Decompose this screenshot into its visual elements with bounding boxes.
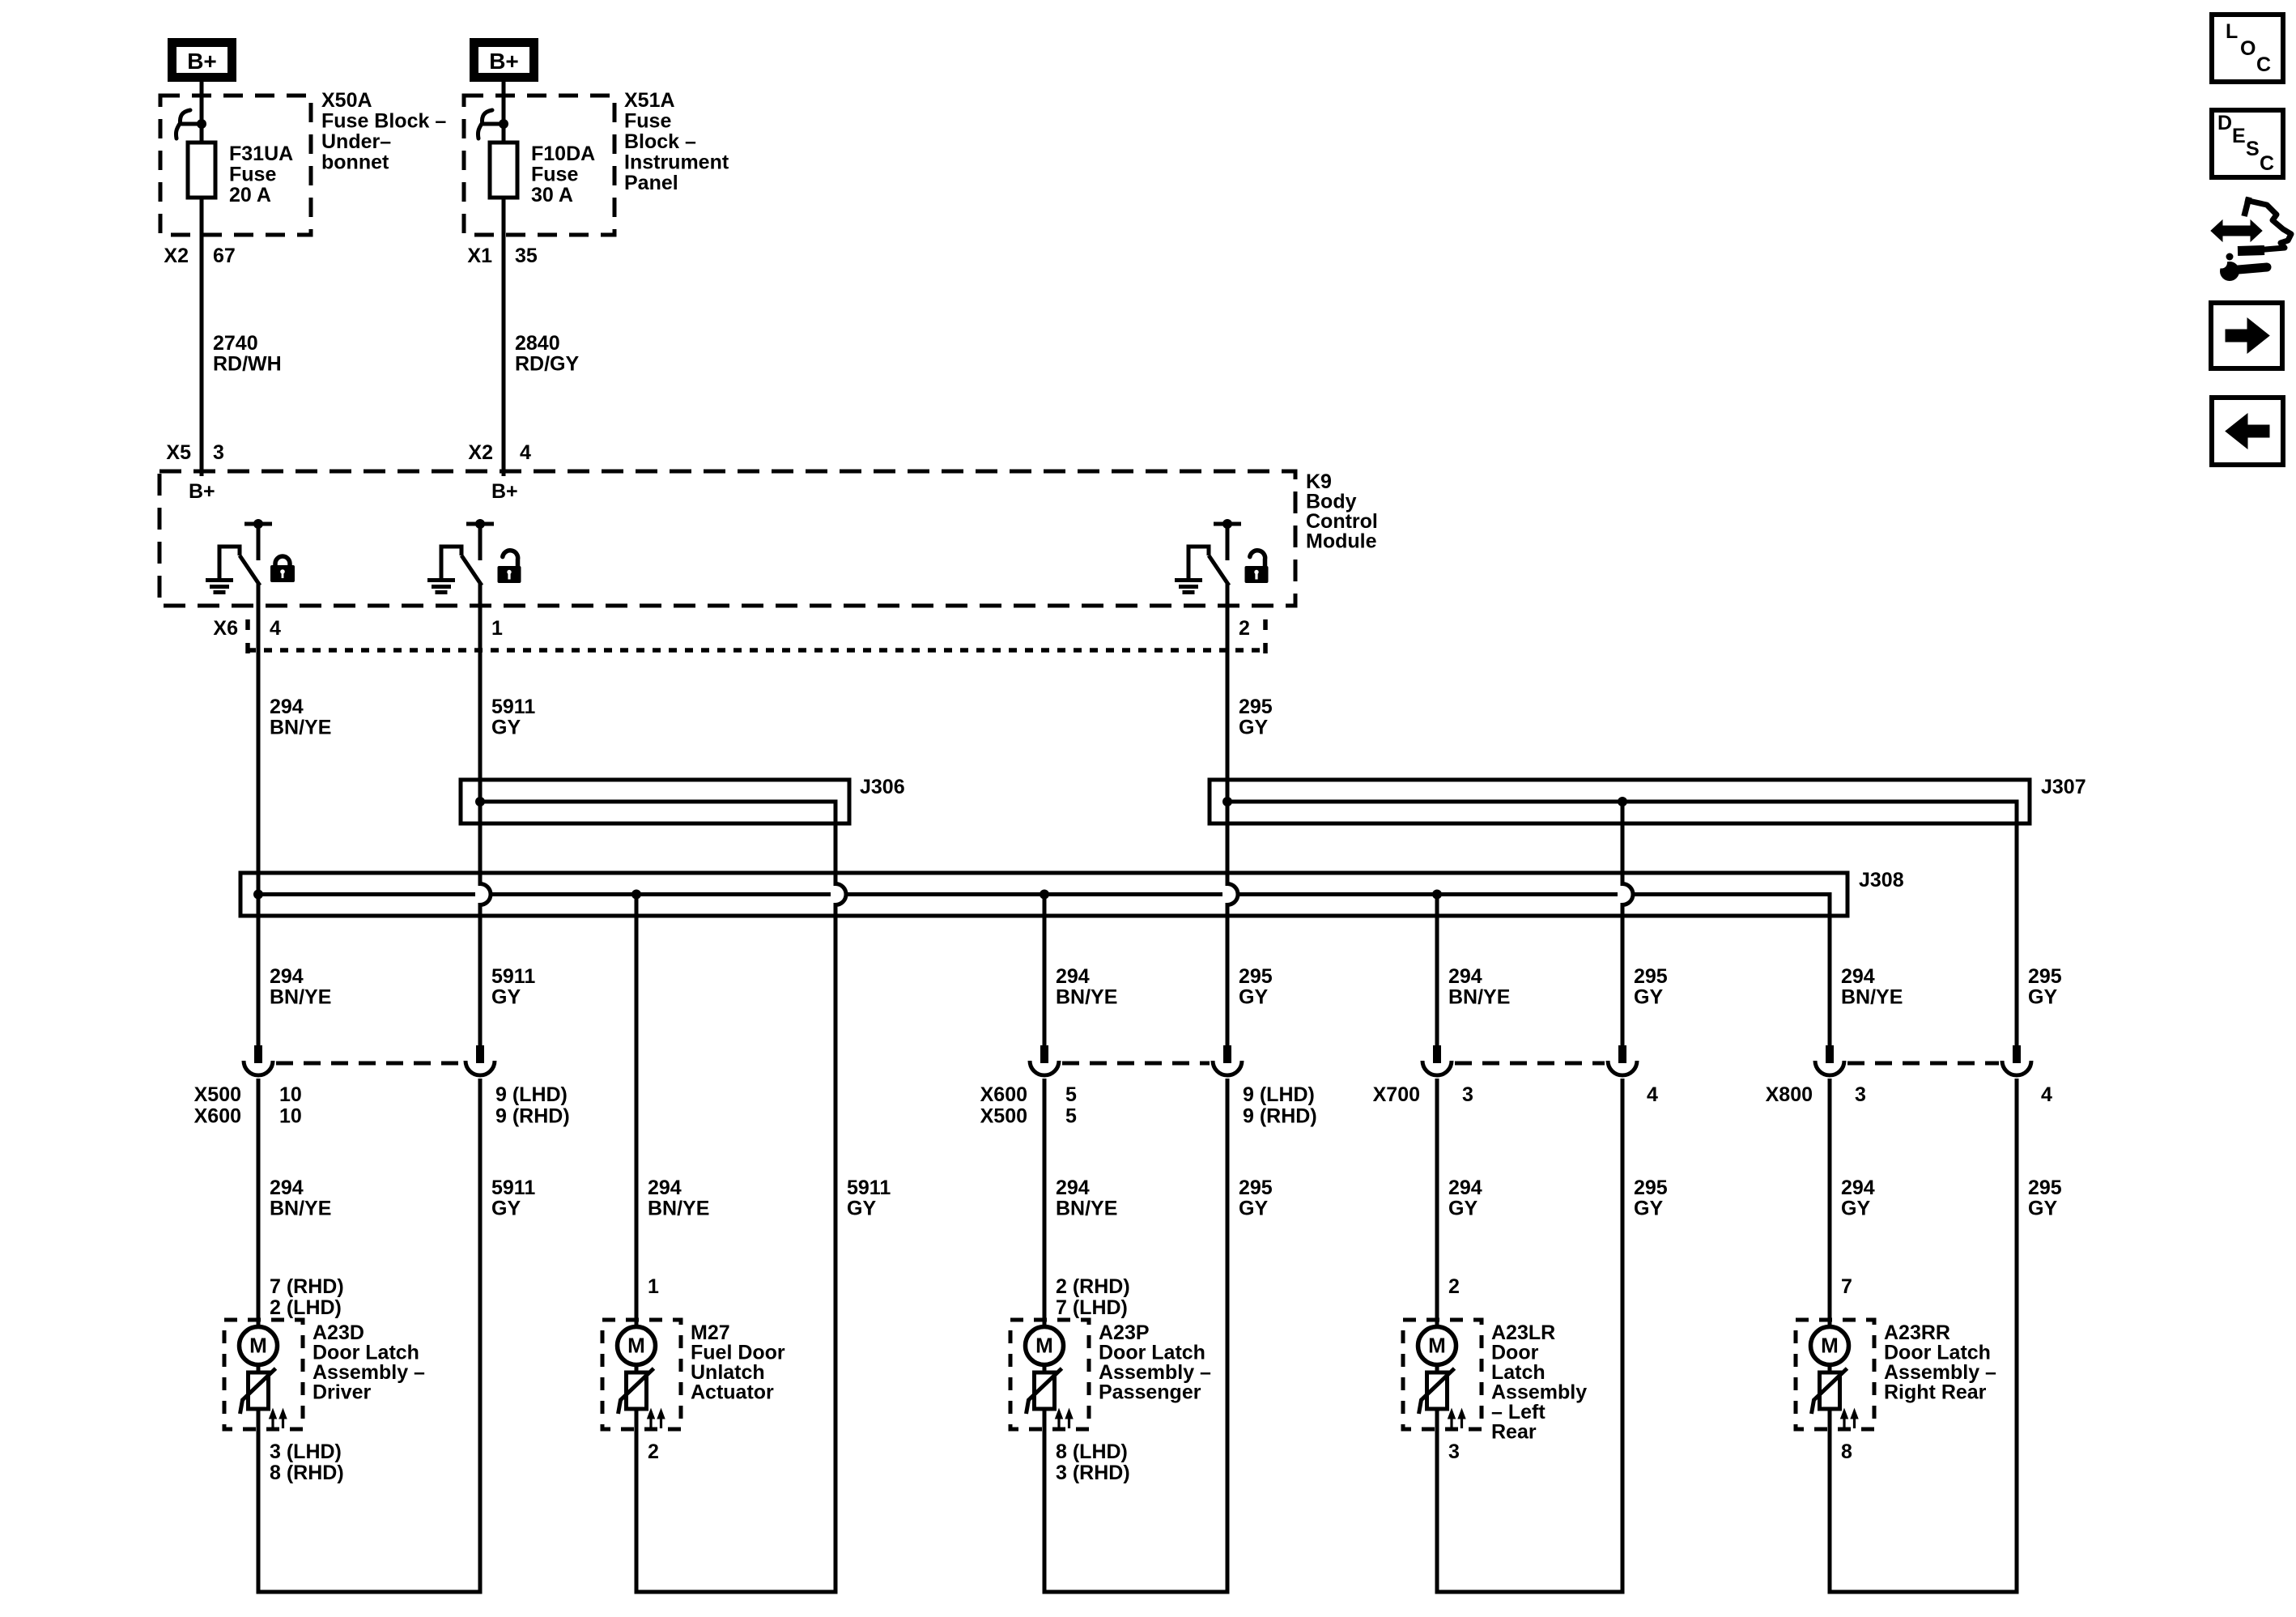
svg-text:294: 294 bbox=[1841, 965, 1875, 988]
ground symbol at unlock (pin X6-1) driver bbox=[427, 581, 455, 593]
svg-text:35: 35 bbox=[515, 245, 538, 267]
svg-text:9 (RHD): 9 (RHD) bbox=[1243, 1105, 1317, 1128]
wire 295 GY left-rear branch from J307 (hop over J308) bbox=[1622, 802, 1633, 1045]
svg-text:X5: X5 bbox=[166, 441, 191, 464]
svg-text:2 (RHD): 2 (RHD) bbox=[1056, 1275, 1130, 1298]
wire through door latch assembly passenger A23P bbox=[1043, 1409, 1047, 1592]
svg-text:2: 2 bbox=[648, 1440, 659, 1463]
svg-text:X50A: X50A bbox=[321, 89, 372, 112]
return wire fuel door actuator to 5911 GY bbox=[635, 1590, 838, 1594]
junction dot J308 at passenger branch bbox=[1040, 890, 1049, 900]
svg-text:3: 3 bbox=[1855, 1083, 1866, 1106]
lock (pin X6-4) driver switch in BCM bbox=[219, 519, 272, 585]
svg-text:X500: X500 bbox=[980, 1105, 1027, 1128]
svg-text:GY: GY bbox=[1841, 1198, 1870, 1220]
svg-text:Driver: Driver bbox=[313, 1381, 372, 1404]
svg-text:J307: J307 bbox=[2041, 776, 2086, 798]
open padlock icon at unlock (pin X6-1) driver bbox=[498, 551, 521, 583]
inline connector X700 left rear door right half bbox=[1608, 1045, 1637, 1075]
inline connector X800 right rear door right half bbox=[2002, 1045, 2031, 1075]
motor M symbol of door latch assembly passenger A23P bbox=[1026, 1327, 1064, 1365]
svg-text:295: 295 bbox=[1239, 965, 1273, 988]
ground symbol at rear unlock (pin X6-2) driver bbox=[1175, 581, 1202, 593]
svg-text:BN/YE: BN/YE bbox=[270, 986, 331, 1009]
svg-text:GY: GY bbox=[1239, 986, 1268, 1009]
return wire driver latch to 5911 GY bbox=[257, 1590, 483, 1594]
wire 294 GY right rear below connector bbox=[1828, 1079, 1832, 1328]
svg-text:X500: X500 bbox=[194, 1083, 241, 1106]
wire 294 BN/YE from X6-4 down to door latch driver (with J308 splice) bbox=[257, 584, 261, 1045]
svg-text:B+: B+ bbox=[187, 49, 217, 74]
svg-text:GY: GY bbox=[1239, 717, 1268, 739]
svg-text:4: 4 bbox=[1647, 1083, 1658, 1106]
svg-text:X51A: X51A bbox=[624, 89, 675, 112]
wire through fuel door unlatch actuator M27 bbox=[635, 1409, 639, 1592]
svg-text:5911: 5911 bbox=[847, 1177, 891, 1199]
return wire right rear latch to 295 GY bbox=[1828, 1590, 2019, 1594]
svg-text:294: 294 bbox=[270, 696, 304, 718]
svg-text:5: 5 bbox=[1065, 1083, 1077, 1106]
X6 connector bracket right bbox=[1263, 619, 1268, 653]
svg-text:295: 295 bbox=[1239, 1177, 1273, 1199]
wire 295 GY left rear return below connector bbox=[1621, 1079, 1625, 1592]
svg-text:M: M bbox=[249, 1334, 267, 1358]
connector link dashed line X700 left rear door bbox=[1455, 1062, 1605, 1066]
return wire left rear latch to 295 GY bbox=[1435, 1590, 1625, 1594]
svg-text:RD/GY: RD/GY bbox=[515, 353, 580, 376]
svg-text:7 (RHD): 7 (RHD) bbox=[270, 1275, 344, 1298]
door latch assembly driver A23D dashed box bbox=[224, 1320, 303, 1429]
svg-text:J306: J306 bbox=[860, 776, 905, 798]
svg-text:X2: X2 bbox=[468, 441, 493, 464]
svg-text:5: 5 bbox=[1065, 1105, 1077, 1128]
J307 internal bus wire bbox=[1227, 802, 2017, 823]
svg-text:X1: X1 bbox=[467, 245, 492, 267]
connector link dashed line X800 right rear door bbox=[1847, 1062, 1999, 1066]
svg-text:bonnet: bonnet bbox=[321, 151, 389, 174]
fuse block tap symbol 1 bbox=[176, 110, 202, 138]
svg-text:BN/YE: BN/YE bbox=[1056, 1198, 1117, 1220]
svg-text:X600: X600 bbox=[194, 1105, 241, 1128]
wire 294 BN/YE fuel door actuator branch from J308 bbox=[635, 895, 639, 1329]
return wire passenger latch to 295 GY bbox=[1043, 1590, 1230, 1594]
svg-text:Fuse: Fuse bbox=[229, 164, 276, 186]
svg-text:2 (LHD): 2 (LHD) bbox=[270, 1296, 342, 1319]
splice pack J308 box bbox=[240, 873, 1847, 916]
svg-text:GY: GY bbox=[1448, 1198, 1478, 1220]
svg-text:Right Rear: Right Rear bbox=[1884, 1381, 1987, 1404]
svg-text:20 A: 20 A bbox=[229, 184, 271, 206]
svg-text:8 (LHD): 8 (LHD) bbox=[1056, 1440, 1128, 1463]
direction arrows of door latch assembly driver A23D bbox=[270, 1409, 287, 1428]
wire 5911 GY driver return below connector bbox=[478, 1079, 483, 1592]
ground symbol at lock (pin X6-4) driver bbox=[206, 581, 233, 593]
svg-text:Fuse: Fuse bbox=[624, 110, 671, 133]
svg-text:BN/YE: BN/YE bbox=[1841, 986, 1903, 1009]
svg-text:5911: 5911 bbox=[491, 696, 535, 718]
svg-text:GY: GY bbox=[1634, 986, 1663, 1009]
svg-text:9 (LHD): 9 (LHD) bbox=[1243, 1083, 1315, 1106]
svg-text:30 A: 30 A bbox=[531, 184, 573, 206]
svg-text:C: C bbox=[2260, 152, 2274, 175]
svg-text:Passenger: Passenger bbox=[1099, 1381, 1201, 1404]
svg-text:3: 3 bbox=[1448, 1440, 1460, 1463]
svg-text:294: 294 bbox=[1056, 965, 1090, 988]
direction arrows of door latch assembly right rear A23RR bbox=[1841, 1409, 1859, 1428]
svg-text:8: 8 bbox=[1841, 1440, 1852, 1463]
svg-text:GY: GY bbox=[847, 1198, 876, 1220]
svg-text:B+: B+ bbox=[189, 480, 215, 503]
svg-text:E: E bbox=[2232, 125, 2246, 147]
svg-text:2: 2 bbox=[1448, 1275, 1460, 1298]
svg-text:4: 4 bbox=[520, 441, 531, 464]
svg-text:X800: X800 bbox=[1766, 1083, 1813, 1106]
svg-text:BN/YE: BN/YE bbox=[1448, 986, 1510, 1009]
svg-text:7 (LHD): 7 (LHD) bbox=[1056, 1296, 1128, 1319]
wire 295 GY from X6-2 down through J307 and J308 hop bbox=[1227, 584, 1238, 1045]
svg-text:294: 294 bbox=[270, 1177, 304, 1199]
svg-text:3: 3 bbox=[1462, 1083, 1473, 1106]
svg-text:2740: 2740 bbox=[213, 332, 258, 355]
svg-text:J308: J308 bbox=[1859, 869, 1904, 891]
door latch assembly left rear A23LR dashed box bbox=[1403, 1320, 1482, 1429]
svg-text:Panel: Panel bbox=[624, 172, 678, 194]
svg-text:GY: GY bbox=[491, 1198, 521, 1220]
connector link dashed line X500/X600 driver door bbox=[276, 1062, 462, 1066]
fuel door unlatch actuator M27 dashed box bbox=[602, 1320, 681, 1429]
junction dot J308 at left-rear branch bbox=[1432, 890, 1442, 900]
svg-text:3 (LHD): 3 (LHD) bbox=[270, 1440, 342, 1463]
svg-text:C: C bbox=[2256, 53, 2271, 76]
svg-text:BN/YE: BN/YE bbox=[270, 1198, 331, 1220]
svg-text:O: O bbox=[2240, 37, 2256, 60]
wire 294 BN/YE left-rear branch from J308 bbox=[1435, 895, 1439, 1046]
svg-text:Instrument: Instrument bbox=[624, 151, 729, 174]
inline connector X600/X500 passenger door right half bbox=[1213, 1045, 1242, 1075]
wire 294 BN/YE right-rear branch from J308 bbox=[1828, 916, 1832, 1045]
svg-text:BN/YE: BN/YE bbox=[270, 717, 331, 739]
svg-text:Fuse Block –: Fuse Block – bbox=[321, 110, 446, 133]
splice pack J307 box bbox=[1210, 780, 2030, 823]
door latch assembly passenger A23P dashed box bbox=[1010, 1320, 1089, 1429]
svg-text:3 (RHD): 3 (RHD) bbox=[1056, 1462, 1130, 1484]
wire 294 BN/YE passenger below connector bbox=[1043, 1079, 1047, 1328]
wire 294 BN/YE passenger branch from J308 bbox=[1043, 895, 1047, 1046]
svg-text:Actuator: Actuator bbox=[691, 1381, 774, 1404]
svg-text:295: 295 bbox=[2028, 965, 2062, 988]
svg-text:F10DA: F10DA bbox=[531, 143, 595, 165]
fuse F31UA symbol bbox=[188, 143, 215, 198]
svg-text:X700: X700 bbox=[1373, 1083, 1420, 1106]
svg-text:M: M bbox=[1821, 1334, 1839, 1358]
junction dot at fuse tap 1 bbox=[197, 119, 206, 129]
junction dot J308 at fuel door actuator branch bbox=[631, 890, 641, 900]
svg-text:GY: GY bbox=[491, 986, 521, 1009]
J308 internal bus wire segments bbox=[258, 895, 1830, 917]
J306 internal bus wire bbox=[480, 802, 835, 823]
svg-text:F31UA: F31UA bbox=[229, 143, 293, 165]
B+ battery terminal 2 bbox=[474, 43, 534, 78]
wire 295 GY right rear return below connector bbox=[2015, 1079, 2019, 1592]
svg-text:BN/YE: BN/YE bbox=[1056, 986, 1117, 1009]
closed padlock icon at lock (pin X6-4) driver bbox=[270, 556, 295, 582]
svg-text:GY: GY bbox=[1634, 1198, 1663, 1220]
wire 294 GY left rear below connector bbox=[1435, 1079, 1439, 1328]
direction arrows of fuel door unlatch actuator M27 bbox=[648, 1409, 665, 1428]
inline connector X500/X600 driver door right half bbox=[466, 1045, 495, 1075]
svg-text:294: 294 bbox=[270, 965, 304, 988]
inline connector X700 left rear door left half bbox=[1422, 1045, 1452, 1075]
svg-text:294: 294 bbox=[1056, 1177, 1090, 1199]
svg-text:B+: B+ bbox=[491, 480, 518, 503]
PTC thermal protector of door latch assembly right rear A23RR bbox=[1812, 1364, 1847, 1414]
wire 295 GY passenger return below connector bbox=[1226, 1079, 1230, 1592]
junction dot at fuse tap 2 bbox=[499, 119, 508, 129]
svg-text:294: 294 bbox=[648, 1177, 682, 1199]
wire through door latch assembly driver A23D bbox=[257, 1409, 261, 1592]
connector link dashed line X600/X500 passenger door bbox=[1062, 1062, 1210, 1066]
svg-text:X6: X6 bbox=[213, 617, 238, 640]
svg-text:2: 2 bbox=[1239, 617, 1250, 640]
svg-text:8 (RHD): 8 (RHD) bbox=[270, 1462, 344, 1484]
svg-text:GY: GY bbox=[2028, 986, 2057, 1009]
inline connector X800 right rear door left half bbox=[1815, 1045, 1844, 1075]
svg-text:X600: X600 bbox=[980, 1083, 1027, 1106]
open padlock icon at rear unlock (pin X6-2) driver bbox=[1245, 551, 1269, 583]
svg-text:10: 10 bbox=[279, 1083, 302, 1106]
svg-text:D: D bbox=[2217, 112, 2232, 134]
next page arrow legend box bbox=[2211, 303, 2282, 368]
svg-text:M: M bbox=[1035, 1334, 1053, 1358]
wire 5911 GY from X6-1 down through J306 and J308 hop bbox=[480, 584, 491, 1045]
door latch assembly right rear A23RR dashed box bbox=[1796, 1320, 1874, 1429]
svg-text:Rear: Rear bbox=[1491, 1421, 1537, 1444]
wire 295 GY right-rear branch from J307 bbox=[2015, 802, 2019, 1045]
svg-text:M: M bbox=[1428, 1334, 1446, 1358]
junction dot J307 at 295 wire from BCM bbox=[1222, 797, 1232, 806]
fuse block X51A dashed box bbox=[464, 96, 614, 235]
direction arrows of door latch assembly left rear A23LR bbox=[1448, 1409, 1466, 1428]
svg-text:5911: 5911 bbox=[491, 965, 535, 988]
fuse F10DA symbol bbox=[490, 143, 517, 198]
svg-text:295: 295 bbox=[1239, 696, 1273, 718]
fuse block X50A dashed box bbox=[160, 96, 311, 235]
junction dot J308 at 294 wire from BCM bbox=[253, 890, 263, 900]
rear unlock (pin X6-2) driver switch in BCM bbox=[1188, 519, 1241, 585]
wire from B+ terminal 2 through fuse F10DA down to BCM pin X2-4 bbox=[502, 82, 506, 476]
svg-text:GY: GY bbox=[1239, 1198, 1268, 1220]
svg-text:M: M bbox=[627, 1334, 645, 1358]
PTC thermal protector of fuel door unlatch actuator M27 bbox=[619, 1364, 654, 1414]
svg-text:3: 3 bbox=[213, 441, 224, 464]
svg-text:295: 295 bbox=[1634, 965, 1668, 988]
wire 5911 GY from J306 down to fuel door actuator return (hop over J308) bbox=[835, 823, 846, 1592]
wire 294 BN/YE driver door below connector bbox=[257, 1079, 261, 1328]
DESC legend box bbox=[2212, 110, 2283, 177]
wire from B+ terminal 1 through fuse F31UA down to BCM pin X5-3 bbox=[200, 82, 204, 476]
svg-text:Fuse: Fuse bbox=[531, 164, 578, 186]
svg-text:1: 1 bbox=[648, 1275, 659, 1298]
LOC legend box bbox=[2212, 15, 2283, 82]
svg-text:4: 4 bbox=[2041, 1083, 2052, 1106]
BCM connector X6 interface dotted line bbox=[248, 648, 1265, 653]
svg-text:5911: 5911 bbox=[491, 1177, 535, 1199]
X6 connector bracket left bbox=[245, 619, 250, 653]
svg-text:BN/YE: BN/YE bbox=[648, 1198, 709, 1220]
svg-text:X2: X2 bbox=[164, 245, 189, 267]
svg-text:9 (RHD): 9 (RHD) bbox=[495, 1105, 570, 1128]
svg-text:295: 295 bbox=[1634, 1177, 1668, 1199]
inline connector X600/X500 passenger door left half bbox=[1030, 1045, 1059, 1075]
fuse block tap symbol 2 bbox=[478, 110, 504, 138]
PTC thermal protector of door latch assembly driver A23D bbox=[240, 1364, 276, 1414]
svg-text:L: L bbox=[2226, 20, 2238, 43]
svg-text:294: 294 bbox=[1448, 1177, 1482, 1199]
motor M symbol of fuel door unlatch actuator M27 bbox=[618, 1327, 656, 1365]
K9 Body Control Module dashed box bbox=[159, 471, 1295, 606]
B+ battery terminal 1 bbox=[172, 43, 232, 78]
svg-text:1: 1 bbox=[491, 617, 503, 640]
junction dot J307 at left-rear 295 branch bbox=[1618, 797, 1627, 806]
svg-text:9 (LHD): 9 (LHD) bbox=[495, 1083, 568, 1106]
svg-text:2840: 2840 bbox=[515, 332, 560, 355]
wire through door latch assembly right rear A23RR bbox=[1828, 1409, 1832, 1592]
PTC thermal protector of door latch assembly passenger A23P bbox=[1027, 1364, 1062, 1414]
direction arrows of door latch assembly passenger A23P bbox=[1056, 1409, 1074, 1428]
svg-text:Under–: Under– bbox=[321, 130, 391, 153]
motor M symbol of door latch assembly driver A23D bbox=[240, 1327, 278, 1365]
svg-text:RD/WH: RD/WH bbox=[213, 353, 282, 376]
svg-text:Module: Module bbox=[1306, 530, 1377, 553]
unlock (pin X6-1) driver switch in BCM bbox=[441, 519, 494, 585]
PTC thermal protector of door latch assembly left rear A23LR bbox=[1419, 1364, 1455, 1414]
inline connector X500/X600 driver door left half bbox=[244, 1045, 273, 1075]
splice pack J306 box bbox=[461, 780, 849, 823]
svg-text:294: 294 bbox=[1841, 1177, 1875, 1199]
motor M symbol of door latch assembly left rear A23LR bbox=[1418, 1327, 1456, 1365]
svg-text:294: 294 bbox=[1448, 965, 1482, 988]
svg-text:GY: GY bbox=[491, 717, 521, 739]
svg-text:10: 10 bbox=[279, 1105, 302, 1128]
svg-text:S: S bbox=[2246, 138, 2260, 160]
vehicle with double arrow and wrench icon bbox=[2211, 198, 2291, 282]
svg-text:4: 4 bbox=[270, 617, 281, 640]
wire through door latch assembly left rear A23LR bbox=[1435, 1409, 1439, 1592]
previous page arrow legend box bbox=[2212, 398, 2283, 465]
svg-text:B+: B+ bbox=[489, 49, 519, 74]
svg-text:Block –: Block – bbox=[624, 130, 696, 153]
junction dot J306 at 5911 wire bbox=[475, 797, 485, 806]
motor M symbol of door latch assembly right rear A23RR bbox=[1811, 1327, 1849, 1365]
svg-text:7: 7 bbox=[1841, 1275, 1852, 1298]
svg-text:295: 295 bbox=[2028, 1177, 2062, 1199]
svg-text:67: 67 bbox=[213, 245, 236, 267]
svg-text:GY: GY bbox=[2028, 1198, 2057, 1220]
